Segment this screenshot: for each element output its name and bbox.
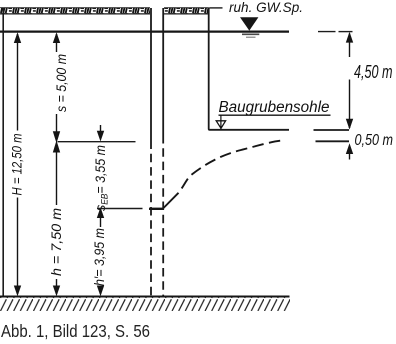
Baugrubensohle leader with open triangle arrow: [216, 115, 225, 129]
drawdown curve (dashed): [179, 141, 282, 193]
dimension h line upper segment with up arrow: [53, 140, 60, 205]
svg-text:0,50 m: 0,50 m: [355, 132, 394, 149]
svg-text:H = 12,50 m: H = 12,50 m: [9, 133, 25, 195]
svg-text:h = 7,50 m: h = 7,50 m: [48, 208, 64, 276]
Baugrubensohle level extension line (top 0,50 reference): [314, 129, 350, 131]
well casing left line solid part: [150, 8, 152, 141]
bottom diagonal hatching: [0, 298, 290, 312]
dimension h' bottom segment with down arrow: [97, 286, 104, 297]
leader dash before ruh. GW.Sp. label: [210, 7, 223, 9]
dimension H line upper segment with up arrow: [14, 32, 21, 130]
well casing right line dashed part: [162, 141, 164, 297]
svg-text:Baugrubensohle: Baugrubensohle: [219, 99, 330, 116]
drawdown curve first dash (solid leg at well): [164, 193, 179, 208]
dimension s line upper segment with up arrow: [53, 32, 60, 52]
svg-text:4,50 m: 4,50 m: [354, 62, 393, 82]
svg-text:ruh. GW.Sp.: ruh. GW.Sp.: [229, 0, 303, 15]
well casing right line solid part: [162, 8, 164, 141]
extension line from GW level to 4,50 dimension: [318, 31, 336, 33]
dimension sEB top stub with down arrow: [97, 125, 104, 142]
left frame line: [2, 8, 4, 297]
svg-text:sEB= 3,55 m: sEB= 3,55 m: [92, 145, 111, 211]
groundwater symbol (filled nabla): [240, 17, 259, 37]
lowered GW level extension line (bottom 0,50 reference): [316, 140, 350, 142]
dimension 4,50 m line with arrows: [346, 32, 353, 130]
well casing left line dashed part: [150, 141, 152, 297]
excavation wall and base line: [209, 8, 289, 130]
dimension H line lower segment with down arrow: [14, 198, 21, 297]
ground surface hatch band right of well: [164, 7, 209, 14]
dimension 0,50 m up arrow below: [346, 143, 353, 159]
water level in well extension line (y=208.5): [97, 208, 143, 210]
bottom impervious layer line: [0, 296, 290, 298]
svg-text:s = 5,00 m: s = 5,00 m: [53, 54, 69, 112]
lowered water level extension line at well (y=141.7): [58, 141, 136, 143]
dimension h line lower segment with down arrow: [53, 279, 60, 296]
dimension s line lower segment with down arrow: [53, 114, 60, 143]
svg-text:h′= 3,95 m: h′= 3,95 m: [91, 228, 107, 286]
svg-text:Abb. 1, Bild 123, S. 56: Abb. 1, Bild 123, S. 56: [1, 321, 150, 341]
groundwater level line: [0, 31, 289, 33]
ground surface hatch band left: [0, 7, 150, 14]
dimension sEB bottom arrow (up, below water-in-well line): [97, 207, 104, 227]
water level inside well (thicker): [149, 208, 164, 210]
